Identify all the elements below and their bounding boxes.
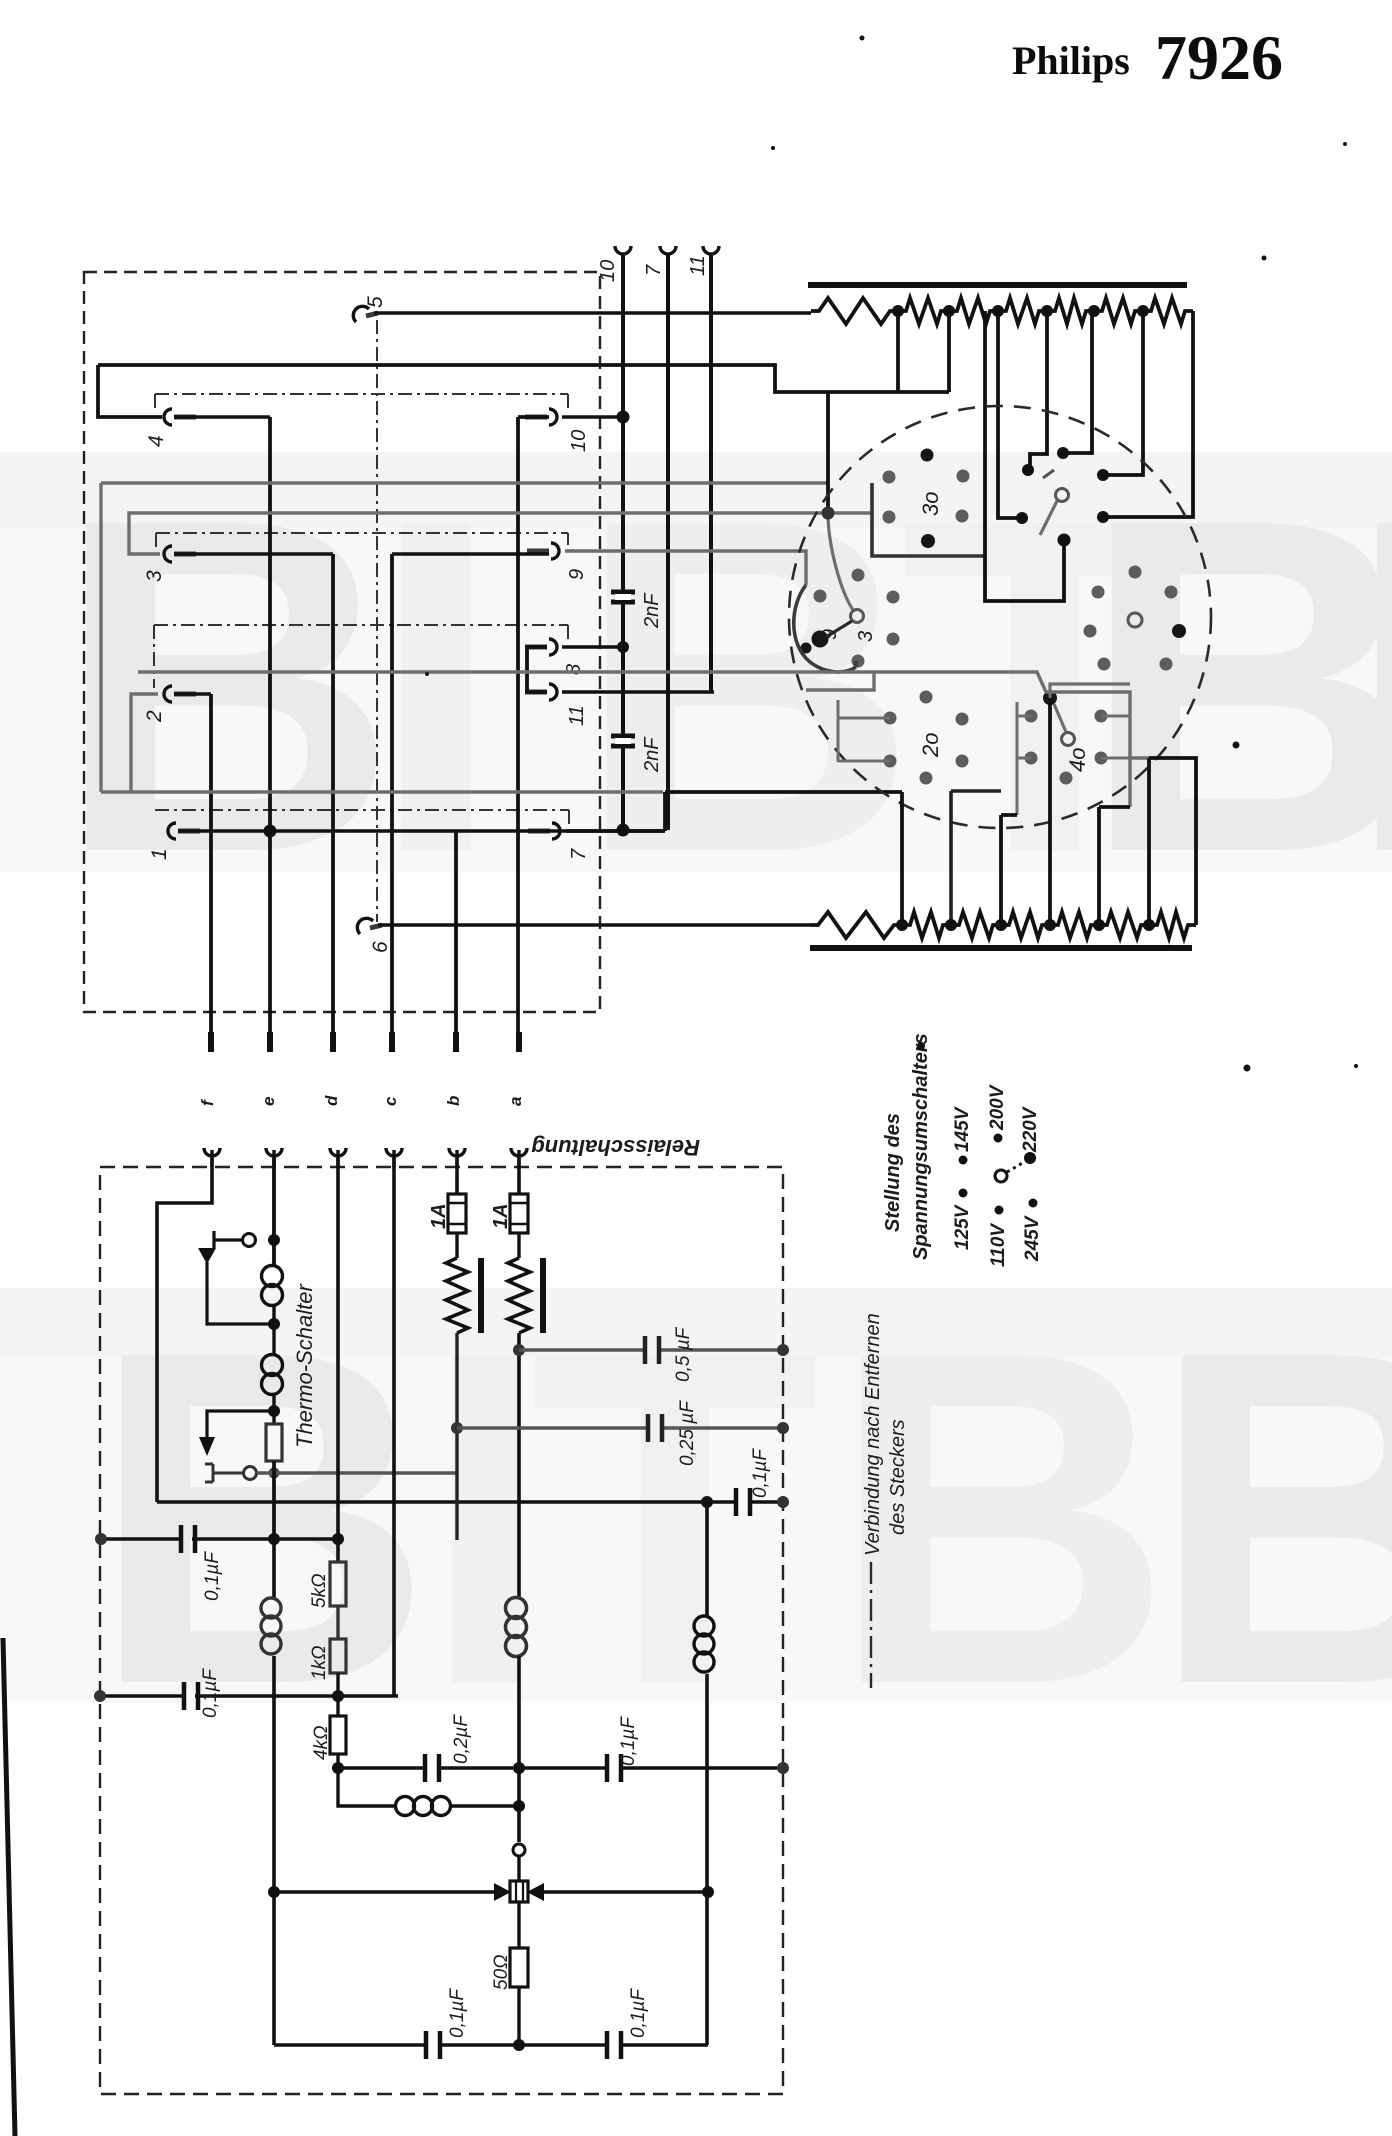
wafer group 2o contacts bbox=[884, 691, 969, 785]
junction a / bottom row bbox=[513, 2039, 525, 2051]
wire: terminal 1 stub bbox=[178, 829, 665, 833]
wafer 4o wiper contact circle bbox=[1062, 733, 1075, 746]
wire: 0,5uF row bbox=[519, 1348, 783, 1351]
legend switch rotor circle bbox=[995, 1170, 1007, 1182]
junction row3 left bbox=[332, 1762, 344, 1774]
vibrator right drive line bbox=[542, 1890, 708, 1894]
tube socket selected contact bbox=[1172, 624, 1186, 638]
terminal 10 top hook bbox=[615, 246, 631, 254]
node dot bbox=[1022, 464, 1034, 476]
relay coil 2 bbox=[262, 1355, 283, 1395]
junction a / 0,5uF row bbox=[513, 1344, 525, 1356]
junction on 10-line bbox=[617, 411, 630, 424]
svg-text:0,1µF: 0,1µF bbox=[750, 1448, 771, 1498]
vibrator left drive line bbox=[274, 1890, 496, 1894]
legend dot 245V bbox=[1029, 1199, 1038, 1208]
terminal 7 top hook bbox=[660, 246, 676, 254]
relay series resistor bbox=[266, 1424, 282, 1461]
net 7 vertical line bbox=[666, 254, 670, 830]
svg-text:245V: 245V bbox=[1022, 1215, 1043, 1262]
svg-text:Relaisschaltung: Relaisschaltung bbox=[531, 1135, 700, 1160]
wire: a-column long bbox=[517, 1333, 521, 1598]
wire: coil2 to resistor bbox=[272, 1394, 275, 1424]
svg-text:9: 9 bbox=[566, 569, 588, 580]
wire: terminal 4 to e-bus bbox=[174, 415, 270, 419]
svg-text:0,1µF: 0,1µF bbox=[202, 1551, 223, 1601]
svg-text:0,5 µF: 0,5 µF bbox=[673, 1326, 694, 1382]
e-column coil bbox=[261, 1598, 281, 1654]
legend dot 220V (selected) bbox=[1024, 1152, 1036, 1164]
heater tap 6 drop bbox=[1108, 311, 1143, 475]
svg-text:10: 10 bbox=[568, 430, 590, 452]
wire: terminal 2 to f-bus bbox=[174, 692, 211, 695]
svg-text:b: b bbox=[444, 1096, 463, 1106]
capacitor 0,1uF row2 bbox=[184, 1682, 198, 1710]
junction relay contact / e bbox=[268, 1234, 280, 1246]
wire: terminal 9 to c-bus bbox=[392, 552, 549, 556]
relay armature triangle bbox=[198, 1248, 216, 1264]
heater right end drop bbox=[1108, 311, 1193, 517]
wire: long feed from left edge to heater tap bbox=[98, 365, 949, 392]
svg-text:5kΩ: 5kΩ bbox=[309, 1573, 330, 1608]
wire: bottom row bbox=[274, 2043, 708, 2047]
svg-text:0,1µF: 0,1µF bbox=[628, 1988, 649, 2038]
svg-text:B: B bbox=[55, 420, 398, 951]
junction row2 / d-chain bbox=[332, 1690, 344, 1702]
junction wafer common bbox=[822, 507, 835, 520]
terminal 11 hook (right) bbox=[525, 684, 557, 700]
svg-text:Thermo-Schalter: Thermo-Schalter bbox=[292, 1282, 317, 1448]
junction d / row1 bbox=[332, 1533, 344, 1545]
capacitor 0,2uF bbox=[425, 1754, 439, 1782]
wire: 0,25uF row bbox=[457, 1426, 783, 1429]
wafer left wiper contact circle bbox=[851, 610, 864, 623]
svg-text:d: d bbox=[322, 1095, 341, 1106]
loop coil bbox=[396, 1797, 451, 1816]
svg-text:0,2µF: 0,2µF bbox=[451, 1714, 472, 1764]
wire: fuse to heater (b) bbox=[455, 1233, 458, 1258]
terminal 7 hook (right) bbox=[528, 823, 560, 839]
wire: coil link bbox=[272, 1305, 275, 1355]
legend dot 200V bbox=[994, 1134, 1003, 1143]
terminal 5 hook bbox=[353, 306, 378, 322]
bus tip d bbox=[330, 1032, 336, 1052]
wire: e-column lower bbox=[272, 1158, 276, 2045]
gray bundle wire g3 (terminal 2 return loop) bbox=[101, 694, 663, 792]
wafer 3o contour bbox=[872, 483, 985, 556]
upper dashed enclosure (plug connector box) bbox=[84, 272, 600, 1012]
capacitor 0,25uF bbox=[648, 1414, 662, 1442]
svg-text:5: 5 bbox=[364, 296, 387, 308]
wafer left wiper arc bbox=[794, 585, 856, 672]
tube socket center bbox=[1128, 613, 1142, 627]
junction e-bus / terminal 1 bbox=[264, 825, 277, 838]
svg-text:0,1µF: 0,1µF bbox=[618, 1716, 639, 1766]
thermal contact circle bbox=[244, 1467, 257, 1480]
svg-text:3: 3 bbox=[855, 631, 877, 642]
gray stub 2o left column bbox=[838, 700, 890, 762]
heater top junction taps bbox=[892, 305, 1149, 317]
svg-text:200V: 200V bbox=[987, 1084, 1008, 1131]
svg-text:2nF: 2nF bbox=[641, 736, 663, 773]
resistor 5k bbox=[330, 1562, 346, 1606]
wire: pin e relay chain top bbox=[272, 1158, 276, 1266]
fuse 1A (b) bbox=[448, 1194, 466, 1233]
junction 10-line / terminal 8 bbox=[617, 641, 629, 653]
node dot bbox=[1097, 511, 1109, 523]
gray bundle wire g2 (terminal 3 return) bbox=[129, 513, 872, 554]
svg-text:7: 7 bbox=[568, 848, 590, 860]
choke column (right) bbox=[705, 1502, 709, 2045]
capacitor 0,1uF bottom left bbox=[426, 2031, 440, 2059]
capacitor 2nF upper on 10-line bbox=[611, 592, 635, 602]
svg-text:1A: 1A bbox=[428, 1203, 450, 1229]
wire: relay common line bbox=[157, 1500, 783, 1504]
fuse 1A (a) bbox=[510, 1194, 528, 1233]
wire: pin f feed bbox=[157, 1158, 212, 1502]
heater tap 3 drop bbox=[998, 311, 1018, 518]
junction a / loop row bbox=[513, 1800, 525, 1812]
svg-text:a: a bbox=[506, 1097, 525, 1106]
wire: resistor to thermal contact row bbox=[272, 1461, 275, 1539]
scan artifact: bottom-left edge line bbox=[3, 1638, 15, 2136]
svg-text:4kΩ: 4kΩ bbox=[311, 1725, 332, 1760]
bus tip f bbox=[208, 1032, 214, 1052]
wafer group 4o contacts bbox=[1025, 710, 1108, 785]
resistor 1k bbox=[330, 1639, 346, 1673]
heater top bar bbox=[808, 282, 1187, 288]
svg-text:I: I bbox=[370, 420, 502, 951]
terminal 9 hook (right) bbox=[527, 543, 559, 559]
lower heater riser 4 bbox=[1048, 698, 1052, 925]
heater tap 4 drop bbox=[1030, 311, 1047, 466]
note dash-dot leader line bbox=[870, 1562, 872, 1688]
svg-text:Philips: Philips bbox=[1012, 38, 1130, 83]
svg-text:1kΩ: 1kΩ bbox=[309, 1645, 330, 1680]
tube socket contacts (right) bbox=[1084, 566, 1178, 671]
svg-text:B: B bbox=[575, 420, 918, 951]
wire: armature to coil midpoint bbox=[207, 1262, 274, 1324]
node dot bbox=[1016, 512, 1028, 524]
wire: terminal 10 to node 10-line bbox=[562, 415, 623, 419]
wire: e-bus vertical bbox=[268, 417, 272, 1052]
mechanical linkage dash-dot rung row 4-10 bbox=[155, 394, 568, 411]
wire: c-bus vertical bbox=[390, 554, 394, 1052]
wire: vibrator to 50 ohm bbox=[517, 1902, 520, 1948]
terminal 11 top hook bbox=[703, 246, 719, 254]
vibrator element bbox=[510, 1881, 528, 1902]
svg-text:125V: 125V bbox=[952, 1204, 973, 1250]
wafer 4o wiper link bbox=[1054, 704, 1066, 732]
svg-text:3: 3 bbox=[143, 570, 166, 582]
junction below coil 2 bbox=[268, 1405, 280, 1417]
gray stub 4o left column bbox=[1017, 702, 1031, 815]
junction e / drive line bbox=[268, 1886, 280, 1898]
wafer left wiper link bbox=[828, 513, 853, 610]
heater tap 2 drop bbox=[947, 311, 951, 392]
wafer left selected contact bbox=[812, 631, 829, 648]
svg-text:110V: 110V bbox=[988, 1223, 1009, 1267]
capacitor 0,1uF row1 bbox=[181, 1525, 195, 1553]
svg-text:50Ω: 50Ω bbox=[491, 1954, 512, 1990]
bus tip e bbox=[267, 1032, 273, 1052]
terminal 2 hook bbox=[164, 686, 196, 702]
wire: 4k to row3 bbox=[336, 1754, 339, 1768]
legend dot 125V bbox=[959, 1189, 968, 1198]
legend dot 145V bbox=[959, 1156, 968, 1165]
heater bottom junction taps bbox=[896, 919, 1155, 931]
capacitor 0,1uF row3 bbox=[607, 1754, 621, 1782]
relay coil 1 bbox=[262, 1266, 283, 1306]
svg-text:7: 7 bbox=[643, 264, 665, 276]
junction left edge row1 bbox=[95, 1533, 107, 1545]
terminal 8 hook (right) bbox=[525, 639, 557, 655]
resistor 50 Ohm bbox=[510, 1948, 528, 1987]
wire: thermal contact to pin b column bbox=[257, 1471, 456, 1474]
scan specks bbox=[425, 36, 1358, 1072]
wire: 0,2uF row bbox=[338, 1766, 783, 1770]
heater top resistor chain bbox=[811, 298, 1193, 324]
bus tip c bbox=[389, 1032, 395, 1052]
heater resistor (b) bbox=[446, 1258, 468, 1333]
node dot bbox=[1097, 469, 1109, 481]
svg-text:B: B bbox=[1150, 1252, 1392, 1783]
wire: a-bus vertical bbox=[518, 417, 549, 1052]
junction 0,2uF row at edge bbox=[777, 1762, 789, 1774]
voltage selector wafer circle (dashed) bbox=[789, 406, 1211, 828]
lower heater riser 2 bbox=[951, 791, 1001, 925]
svg-text:2o: 2o bbox=[918, 733, 943, 758]
junction e / row1 bbox=[268, 1533, 280, 1545]
mechanical linkage dash-dot rung row 2-8 bbox=[154, 625, 568, 688]
gray stub 4o right column bbox=[1101, 716, 1130, 758]
wire: d-bus vertical bbox=[331, 554, 335, 1052]
heater tap 5 drop bbox=[1068, 311, 1092, 453]
wire: feed to terminal 4 bbox=[98, 365, 162, 417]
gray feed 4o wiper bbox=[1050, 684, 1130, 698]
junction relay common at edge bbox=[777, 1496, 789, 1508]
svg-text:Stellung des: Stellung des bbox=[882, 1113, 904, 1232]
wafer 1 wiper link bbox=[1040, 501, 1057, 535]
wire: a-column below coil bbox=[517, 1656, 521, 1842]
heater electrode bar (a) bbox=[540, 1258, 546, 1333]
wafer group 3o end contacts bbox=[921, 449, 936, 549]
svg-text:c: c bbox=[381, 1096, 400, 1106]
junction choke column / drive line bbox=[702, 1886, 714, 1898]
junction 0,5uF row at edge bbox=[777, 1344, 789, 1356]
node dot bbox=[1057, 447, 1069, 459]
wire: lower armature arm bbox=[207, 1411, 274, 1437]
svg-text:e: e bbox=[259, 1097, 278, 1106]
svg-text:Verbindung nach Entfernen: Verbindung nach Entfernen bbox=[862, 1313, 884, 1556]
legend switch rotor arm bbox=[1007, 1161, 1026, 1172]
lower heater riser 5 bbox=[1099, 807, 1130, 925]
svg-text:0,1µF: 0,1µF bbox=[447, 1988, 468, 2038]
heater tap mid drop long bbox=[985, 311, 1064, 601]
lower heater riser 3 bbox=[1001, 815, 1017, 925]
svg-text:1: 1 bbox=[148, 848, 171, 860]
wire: bracket terminals 8+11 to a-bus bbox=[527, 647, 547, 692]
plug pin b hook bbox=[449, 1148, 465, 1167]
lower armature arrowhead bbox=[199, 1437, 215, 1456]
junction a / 0,2uF row bbox=[513, 1762, 525, 1774]
wire: terminal 11 to 11-line bbox=[562, 690, 714, 694]
svg-text:B: B bbox=[1345, 420, 1392, 951]
svg-text:9: 9 bbox=[819, 629, 841, 640]
net 10 vertical line bbox=[621, 254, 625, 830]
terminal 4 hook bbox=[164, 409, 196, 425]
gray wire from terminal 9 to wafer arc bbox=[565, 551, 806, 585]
heater bottom bar bbox=[810, 945, 1192, 951]
wire: branch y792 to lower heater riser bbox=[566, 792, 902, 831]
svg-text:0,1µF: 0,1µF bbox=[200, 1668, 221, 1718]
plug pin c hook bbox=[386, 1148, 402, 1167]
svg-text:4: 4 bbox=[145, 435, 168, 447]
mechanical linkage dash-dot rung row 1-7 bbox=[155, 810, 569, 824]
heater tap 1 drop bbox=[896, 311, 900, 392]
svg-text:11: 11 bbox=[566, 705, 588, 726]
capacitor 2nF lower on 10-line bbox=[611, 736, 635, 746]
wafer common feed drop bbox=[826, 392, 830, 513]
vibrator left arrowhead bbox=[494, 1883, 511, 1901]
vibrator right arrowhead bbox=[527, 1883, 544, 1901]
node dot wafer1 lower bbox=[1058, 534, 1071, 547]
svg-text:2nF: 2nF bbox=[641, 592, 663, 629]
wire: pin d chain bbox=[336, 1158, 340, 1562]
wire: terminal 8 to 10-line bbox=[562, 645, 623, 649]
lower dashed enclosure (relay box) bbox=[100, 1167, 783, 2094]
junction between relay coils bbox=[268, 1318, 280, 1330]
junction relay common / choke bbox=[701, 1496, 713, 1508]
bus tip a bbox=[516, 1032, 522, 1052]
wire: left edge cap row 2 bbox=[100, 1694, 398, 1697]
wire: 1k to row2 bbox=[336, 1673, 339, 1716]
svg-text:3o: 3o bbox=[918, 492, 943, 516]
lower heater riser 6 and right end loop bbox=[1149, 758, 1196, 925]
wire: heater b to junction bbox=[455, 1333, 458, 1540]
svg-text:10: 10 bbox=[597, 260, 619, 282]
svg-text:4o: 4o bbox=[1065, 748, 1090, 772]
plug pin a hook bbox=[511, 1148, 527, 1167]
plug pin d hook bbox=[330, 1148, 346, 1167]
svg-text:1A: 1A bbox=[490, 1203, 512, 1229]
junction 0,25uF row at edge bbox=[777, 1422, 789, 1434]
wire terminal5 to heater chain bbox=[374, 311, 811, 315]
terminal 6 hook bbox=[357, 918, 382, 934]
svg-text:11: 11 bbox=[687, 255, 709, 276]
svg-text:6: 6 bbox=[369, 941, 392, 953]
wire: pin c chain bbox=[392, 1158, 396, 1696]
net 11 vertical line bbox=[709, 254, 713, 692]
wire: b-bus vertical bbox=[454, 831, 458, 1052]
svg-text:2: 2 bbox=[143, 710, 166, 723]
relay upper contact circle bbox=[243, 1234, 256, 1247]
terminal 1 hook bbox=[168, 823, 200, 839]
wafer left group contacts bbox=[814, 569, 900, 668]
wafer group 3o contacts bbox=[883, 470, 970, 524]
heater electrode bar (b) bbox=[478, 1258, 484, 1333]
wire: left edge cap row 1 bbox=[101, 1537, 338, 1540]
svg-text:145V: 145V bbox=[952, 1106, 973, 1152]
capacitor 0,1uF (relay common to plug edge) bbox=[736, 1488, 750, 1516]
thermal contact bracket bbox=[205, 1464, 243, 1482]
gray return bus to relay box bbox=[138, 672, 1149, 807]
wire: pin a fuse chain bbox=[517, 1158, 521, 1194]
junction thermal row bbox=[269, 1468, 280, 1479]
legend dot 110V bbox=[995, 1206, 1004, 1215]
choke coil right bbox=[694, 1616, 714, 1672]
terminal 3 hook bbox=[164, 546, 196, 562]
capacitor 0,1uF bottom right bbox=[607, 2031, 621, 2059]
gray bundle wire g1 (pin contact row upper) bbox=[101, 483, 828, 792]
a-column coil bbox=[506, 1598, 527, 1657]
mechanical linkage dash-dot spine bbox=[376, 320, 378, 922]
heater resistor (a) bbox=[508, 1258, 530, 1333]
vibrator series contact circle bbox=[513, 1844, 525, 1856]
resistor 4k bbox=[330, 1716, 346, 1754]
svg-text:0,25 µF: 0,25 µF bbox=[677, 1400, 698, 1466]
lower heater riser 1 bbox=[900, 792, 904, 925]
svg-text:7926: 7926 bbox=[1155, 22, 1283, 93]
wire: 5k to 1k bbox=[336, 1606, 339, 1639]
wire: loop with coil below 0,2uF row bbox=[338, 1768, 519, 1806]
wire: to vibrator bbox=[517, 1856, 520, 1881]
svg-text:Spannungsumschalters: Spannungsumschalters bbox=[910, 1033, 932, 1260]
plug pin e hook bbox=[266, 1148, 282, 1167]
wafer left wiper to selected contact bbox=[826, 621, 852, 637]
label 1 (wafer) bbox=[1043, 470, 1054, 478]
wire: f-bus vertical bbox=[209, 694, 213, 1052]
gray step under 2o group bbox=[806, 673, 874, 690]
wire: terminal 3 to d-bus bbox=[174, 552, 333, 556]
plug pin f hook bbox=[204, 1148, 220, 1167]
wire terminal6 to lower heater chain bbox=[378, 923, 810, 927]
capacitor 0,5uF bbox=[645, 1336, 659, 1364]
wafer 4o top contact bbox=[1043, 691, 1057, 705]
heater bottom resistor chain bbox=[810, 912, 1196, 938]
svg-text:220V: 220V bbox=[1020, 1106, 1041, 1153]
mechanical linkage dash-dot rung row 3-9 bbox=[156, 533, 568, 547]
wire: fuse to heater (a) bbox=[517, 1233, 520, 1258]
svg-text:B: B bbox=[90, 1252, 433, 1783]
junction 10-line bottom bbox=[617, 824, 630, 837]
wire: 50 ohm to bottom row bbox=[517, 1987, 520, 2045]
wire: pin b fuse chain bbox=[455, 1158, 459, 1194]
bus tip b bbox=[453, 1032, 459, 1052]
svg-text:des Steckers: des Steckers bbox=[887, 1419, 909, 1535]
terminal 10 hook (right) bbox=[525, 409, 557, 425]
junction left edge row2 bbox=[94, 1690, 106, 1702]
wafer 1 wiper contact circle bbox=[1056, 489, 1069, 502]
junction b / 0,25uF row bbox=[451, 1422, 463, 1434]
relay upper contact arm and armature bbox=[214, 1231, 243, 1249]
